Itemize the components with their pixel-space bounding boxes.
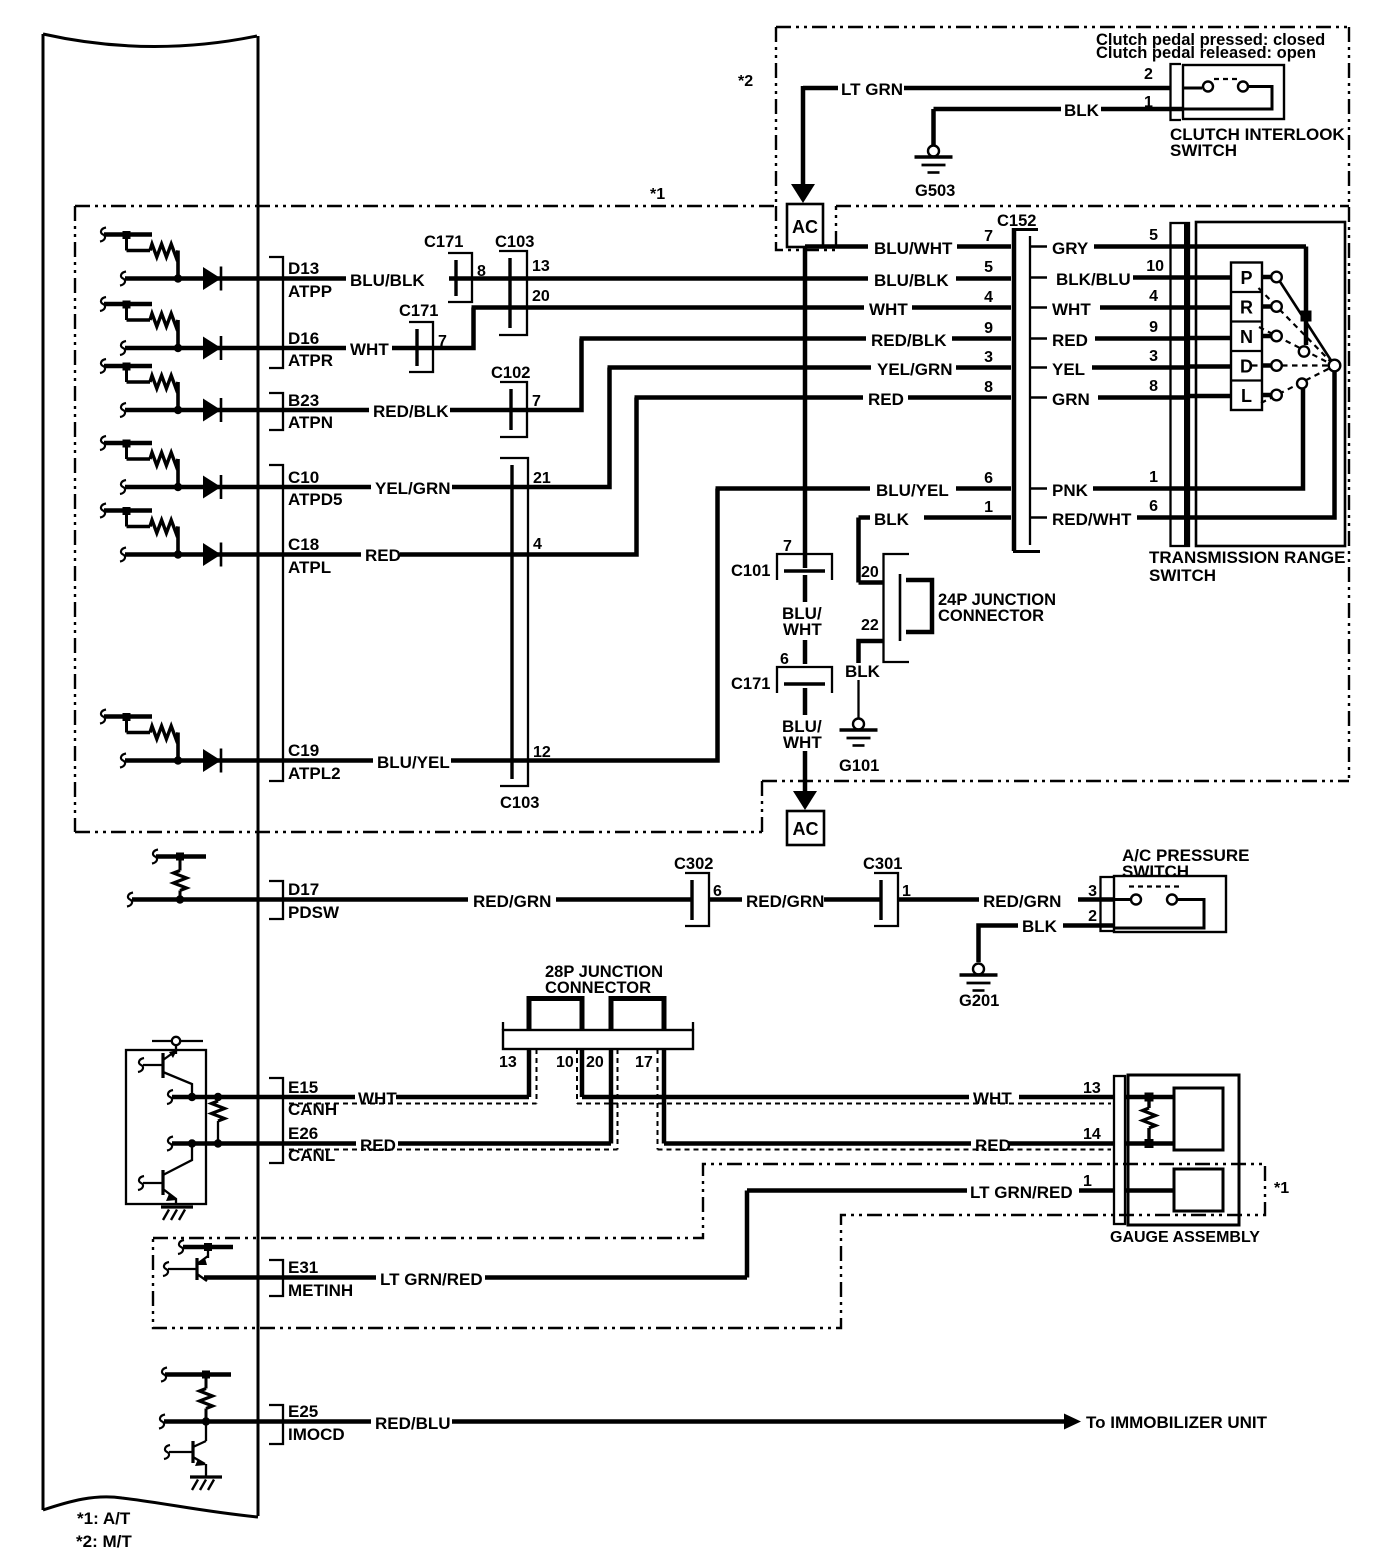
wire RED (C18 to C152 pin 8) (258, 390, 1011, 565)
svg-text:RED/WHT: RED/WHT (1052, 510, 1132, 529)
svg-text:AC: AC (792, 217, 818, 237)
svg-text:ATPL: ATPL (288, 558, 331, 577)
svg-text:*1: *1 (650, 186, 665, 203)
svg-text:C102: C102 (491, 364, 530, 382)
clutch interlock switch (1183, 65, 1284, 119)
svg-text:6: 6 (1149, 498, 1158, 515)
svg-text:14: 14 (1083, 1126, 1101, 1143)
svg-text:7: 7 (783, 538, 792, 555)
A/T-only region boundary around METINH and gauge (dash-dot) (153, 1164, 1265, 1328)
svg-text:20: 20 (532, 288, 550, 305)
pin group bracket E15/E26 (269, 1078, 283, 1163)
svg-text:22: 22 (861, 617, 879, 634)
label TRANSMISSION RANGE SWITCH (1149, 548, 1345, 585)
svg-text:WHT: WHT (350, 340, 389, 359)
svg-text:WHT: WHT (973, 1089, 1012, 1108)
pin B23 label (288, 391, 333, 432)
svg-text:2: 2 (1144, 66, 1153, 83)
svg-text:PNK: PNK (1052, 481, 1089, 500)
svg-text:C19: C19 (288, 741, 319, 760)
wire WHT inside gauge (1125, 1095, 1174, 1100)
wire GRY (C152 pin 5 to range switch) (1052, 227, 1189, 258)
pin E25 label (288, 1402, 345, 1444)
svg-text:C301: C301 (863, 855, 902, 873)
svg-text:C171: C171 (424, 233, 463, 251)
svg-text:G101: G101 (839, 757, 879, 775)
svg-text:C171: C171 (399, 302, 438, 320)
ground G503 (915, 146, 956, 201)
svg-text:CONNECTOR: CONNECTOR (938, 607, 1044, 625)
svg-text:C101: C101 (731, 562, 770, 580)
transistor Q3 (IMOCD driver) (164, 1423, 206, 1476)
svg-text:7: 7 (984, 228, 993, 245)
wire PNK feed inside range switch (1189, 389, 1303, 489)
gauge assembly body (1128, 1075, 1239, 1225)
engine control module (torn-edge outline) (43, 34, 258, 1517)
transmission range switch connector bar (1171, 223, 1190, 546)
wire RED (C152 pin 9 to range switch N) (1052, 319, 1189, 350)
ground G101 (839, 719, 879, 776)
svg-text:GRN: GRN (1052, 390, 1090, 409)
pin group bracket C10/C18/C19 (269, 465, 283, 781)
wire RED/WHT feed inside range switch (common) (1189, 371, 1335, 518)
connector C152 (997, 212, 1047, 552)
svg-text:BLK/BLU: BLK/BLU (1056, 270, 1131, 289)
gauge internal resistor (1143, 1093, 1156, 1149)
svg-text:BLK: BLK (874, 510, 910, 529)
svg-text:GRY: GRY (1052, 239, 1089, 258)
A/T section boundary (dash-dot) (75, 27, 1349, 832)
svg-text:7: 7 (532, 393, 541, 410)
gauge element (lower) (1174, 1169, 1223, 1211)
wire LT GRN arrow into AC (791, 86, 815, 203)
ground G201 (959, 964, 999, 1011)
clutch interlock switch connector bracket (1171, 64, 1182, 120)
pin D16 label (288, 329, 333, 370)
svg-text:BLU/YEL: BLU/YEL (876, 481, 949, 500)
svg-text:ATPL2: ATPL2 (288, 764, 341, 783)
pin C18 label (288, 535, 331, 577)
connector C101 pin 7 (731, 538, 832, 580)
connector C103 pins 13/20 (495, 233, 550, 335)
wire WHT (28P pin 10 to gauge assembly pin 13) (582, 1080, 1114, 1108)
terminal circle (PNK) (1297, 379, 1307, 389)
connector C171 pin 6 (731, 651, 832, 693)
pin E15 label (288, 1078, 337, 1119)
svg-text:RED: RED (868, 390, 904, 409)
wire LT GRN/RED inside gauge (1125, 1188, 1174, 1193)
svg-text:20: 20 (586, 1054, 604, 1071)
svg-text:E15: E15 (288, 1078, 318, 1097)
svg-text:AC: AC (793, 819, 819, 839)
svg-text:E25: E25 (288, 1402, 318, 1421)
svg-text:4: 4 (984, 289, 993, 306)
pin D17 label (288, 880, 340, 922)
M/T section boundary (dash-dot) (776, 27, 1349, 206)
svg-text:5: 5 (1149, 227, 1158, 244)
resistor + diode cell at pin D13 (100, 228, 258, 291)
pin group bracket D13/D16 (269, 257, 283, 368)
svg-text:Clutch pedal released: open: Clutch pedal released: open (1096, 44, 1316, 62)
svg-text:20: 20 (861, 564, 879, 581)
svg-text:1: 1 (1144, 94, 1153, 111)
svg-text:1: 1 (984, 499, 993, 516)
svg-text:4: 4 (533, 536, 542, 553)
wire RED/BLU (E25 to immobilizer unit) (258, 1414, 1081, 1434)
28P pin stubs 13/10/20/17 (499, 1049, 664, 1144)
svg-text:WHT: WHT (1052, 300, 1091, 319)
svg-text:8: 8 (1149, 378, 1158, 395)
svg-text:10: 10 (1146, 258, 1164, 275)
connector C102 pin 7 (491, 364, 541, 437)
svg-text:C10: C10 (288, 468, 319, 487)
termination resistor between CANH and CANL (188, 1093, 225, 1148)
svg-text:To IMMOBILIZER UNIT: To IMMOBILIZER UNIT (1086, 1413, 1268, 1432)
svg-text:BLU/BLK: BLU/BLK (350, 271, 425, 290)
wiper arm (P position, solid) (1277, 277, 1334, 365)
junction (GRY tap on wiper arm) (1301, 311, 1312, 322)
resistor + diode cell at pin D16 (100, 297, 258, 360)
svg-text:IMOCD: IMOCD (288, 1425, 345, 1444)
CAN driver circuit box (CANH/CANL) (126, 1037, 206, 1204)
svg-text:13: 13 (532, 258, 550, 275)
svg-text:*1: *1 (1274, 1180, 1289, 1197)
svg-text:ATPR: ATPR (288, 351, 333, 370)
svg-text:RED: RED (1052, 331, 1088, 350)
svg-text:N: N (1240, 327, 1253, 347)
connector C302 pin 6 (674, 855, 722, 926)
range switch gate plate P/R/N/D/L (1231, 263, 1262, 411)
svg-text:BLU/WHT: BLU/WHT (874, 239, 953, 258)
wire LT GRN/RED (E31 row) (204, 1270, 747, 1289)
svg-text:ATPP: ATPP (288, 282, 332, 301)
svg-text:LT GRN/RED: LT GRN/RED (970, 1183, 1073, 1202)
svg-text:3: 3 (1149, 348, 1158, 365)
wire GRY feed inside range switch (1189, 247, 1306, 346)
terminal circle (GRY) (1299, 346, 1309, 356)
wire RED (E26 to 28P pin 20) (258, 1136, 611, 1155)
svg-text:5: 5 (984, 259, 993, 276)
transmission range switch body (1196, 222, 1345, 546)
shield dashes (CANL pair) (289, 1149, 1111, 1151)
wire BLK (24P junction connector pin 22 to G101) (845, 617, 884, 718)
svg-text:RED: RED (365, 546, 401, 565)
svg-text:BLU/BLK: BLU/BLK (874, 271, 949, 290)
contact circles P/R/N/D/L (1271, 272, 1282, 401)
A/C pressure switch connector bracket (1101, 877, 1115, 931)
pin bracket D17 (269, 881, 283, 919)
svg-text:PDSW: PDSW (288, 903, 340, 922)
transistor cell at pin E31 (163, 1240, 233, 1281)
svg-text:6: 6 (780, 651, 789, 668)
wire RED/GRN (D17 to C302) (258, 892, 692, 911)
transistor Q2 (CAN driver low) (138, 1143, 192, 1204)
svg-text:BLU/YEL: BLU/YEL (377, 753, 450, 772)
svg-text:R: R (1240, 298, 1253, 318)
wire BLU/YEL (C19 to C152 pin 6) (258, 481, 1011, 772)
wire RED (28P pin 17 to gauge assembly pin 14) (664, 1126, 1114, 1155)
wire BLU/BLK (D13 to C152 pin 5) (258, 271, 1011, 290)
svg-text:L: L (1241, 386, 1252, 406)
pin E31 label (288, 1258, 353, 1300)
wire GRN (C152 pin 8 to range switch L) (1052, 378, 1189, 409)
wire YEL/GRN (C10 to C152 pin 3) (258, 360, 1011, 498)
svg-text:G201: G201 (959, 992, 999, 1010)
svg-text:YEL/GRN: YEL/GRN (877, 360, 953, 379)
wire RED/GRN (C301 to A/C pressure switch pin 3) (898, 883, 1114, 911)
pull-up resistor + transistor cell at pin E25 (159, 1368, 258, 1429)
note clutch pedal states (1096, 31, 1325, 62)
wire BLU/WHT vertical (AC to C101) (803, 247, 808, 568)
svg-text:D16: D16 (288, 329, 319, 348)
resistor + diode cell at pin B23 (100, 359, 258, 422)
svg-text:BLK: BLK (1064, 101, 1100, 120)
svg-text:G503: G503 (915, 182, 955, 200)
wire PNK (C152 pin 1 to range switch) (1052, 469, 1189, 500)
svg-text:E26: E26 (288, 1124, 318, 1143)
connector AC (from M/T clutch circuit) (787, 204, 823, 247)
C152 left pin numbers 7/5/4/9/3/8/6/1 (984, 228, 993, 516)
resistor + diode cell at pin C19 (100, 710, 258, 773)
svg-text:CONNECTOR: CONNECTOR (545, 979, 651, 997)
svg-text:SWITCH: SWITCH (1170, 141, 1237, 160)
svg-text:ATPD5: ATPD5 (288, 490, 342, 509)
svg-text:D17: D17 (288, 880, 319, 899)
svg-text:C103: C103 (500, 794, 539, 812)
svg-text:RED/GRN: RED/GRN (746, 892, 824, 911)
svg-text:*1: A/T: *1: A/T (77, 1509, 131, 1528)
svg-text:RED/GRN: RED/GRN (473, 892, 551, 911)
svg-text:LT GRN: LT GRN (841, 80, 903, 99)
svg-text:RED/BLU: RED/BLU (375, 1414, 451, 1433)
svg-text:9: 9 (984, 320, 993, 337)
svg-text:WHT: WHT (783, 733, 822, 752)
wire LT GRN/RED (E31 to gauge assembly pin 1) (747, 1173, 1114, 1278)
A/C pressure switch (1114, 876, 1226, 932)
connector C171 pin 7 (399, 302, 447, 372)
connector C301 pin 1 (863, 855, 911, 926)
pin bracket E31 (269, 1260, 283, 1296)
wire BLK (C152 pin 1 to 24P junction connector pin 20) (859, 510, 1012, 583)
svg-text:13: 13 (499, 1054, 517, 1071)
wire BLU/WHT arrow (C171 to AC) (782, 688, 822, 810)
gauge assembly connector bar (1114, 1076, 1125, 1224)
svg-text:B23: B23 (288, 391, 319, 410)
wire CANH internal (to E15) (167, 1090, 258, 1104)
connector C171 pin 8 (424, 233, 486, 302)
range switch position feeds P/R/N/D/L (1189, 278, 1231, 397)
svg-text:LT GRN/RED: LT GRN/RED (380, 1270, 483, 1289)
pivot circle (common) (1329, 360, 1341, 372)
connector AC (to A/C compressor circuit) (787, 811, 824, 845)
svg-text:METINH: METINH (288, 1281, 353, 1300)
24P junction connector (884, 554, 1056, 662)
svg-text:6: 6 (984, 470, 993, 487)
svg-text:3: 3 (984, 349, 993, 366)
svg-text:1: 1 (1149, 469, 1158, 486)
28P jumper bridge pins 20-17 (611, 999, 664, 1032)
shield dashes (CANH pair) (289, 1103, 1111, 1105)
pin bracket E25 (269, 1405, 283, 1444)
wire WHT (E15 to 28P pin 13) (258, 1089, 529, 1108)
svg-text:BLK: BLK (1022, 917, 1058, 936)
transistor Q1 (CAN driver high) (138, 1050, 192, 1097)
svg-text:SWITCH: SWITCH (1122, 862, 1189, 881)
wire BLK/BLU (C152 pin 10 to range switch P) (1056, 258, 1189, 289)
svg-text:1: 1 (1083, 1173, 1092, 1190)
svg-text:D13: D13 (288, 259, 319, 278)
svg-text:8: 8 (477, 263, 486, 280)
svg-text:YEL: YEL (1052, 360, 1085, 379)
wire RED inside gauge (1125, 1141, 1174, 1146)
wire RED/WHT (C152 pin 6 to range switch common) (1052, 498, 1189, 529)
label CLUTCH INTERLOOK SWITCH (1170, 125, 1345, 160)
pin C10 label (288, 468, 342, 509)
svg-text:TRANSMISSION RANGE: TRANSMISSION RANGE (1149, 548, 1345, 567)
svg-text:RED/BLK: RED/BLK (871, 331, 947, 350)
wire BLU/WHT (AC to C152 pin 7) (805, 239, 1011, 258)
svg-text:10: 10 (556, 1054, 574, 1071)
wire BLK (A/C pressure switch pin 2 to G201) (979, 908, 1115, 962)
svg-text:13: 13 (1083, 1080, 1101, 1097)
wire RED/GRN (C302 to C301) (709, 892, 881, 911)
connector C103 pins 21/4/12 (500, 458, 551, 812)
wire RED/BLK (B23 to C152 pin 9) (258, 331, 1011, 421)
wiper alternate positions (dashed) (1252, 288, 1331, 403)
label A/C PRESSURE SWITCH (1122, 846, 1250, 881)
svg-text:E31: E31 (288, 1258, 318, 1277)
svg-text:9: 9 (1149, 319, 1158, 336)
pin D13 label (288, 259, 332, 301)
wire LT GRN (AC to clutch interlock switch pin 2) (803, 66, 1170, 99)
wire BLK (clutch interlock switch pin 1 to G503) (934, 94, 1184, 145)
svg-text:*2: M/T: *2: M/T (76, 1532, 132, 1551)
resistor + diode cell at pin C18 (100, 504, 258, 567)
resistor + diode cell at pin C10 (100, 436, 258, 499)
svg-text:4: 4 (1149, 288, 1158, 305)
svg-text:C171: C171 (731, 675, 770, 693)
28P jumper bridge pins 13-10 (529, 999, 582, 1032)
ground (CAN driver) (161, 1207, 193, 1220)
svg-text:BLK: BLK (845, 662, 881, 681)
wire WHT (C152 pin 4 to range switch R) (1052, 288, 1189, 319)
svg-text:C152: C152 (997, 212, 1036, 230)
shield dashes at 28P pins (537, 1049, 658, 1150)
svg-text:RED/BLK: RED/BLK (373, 402, 449, 421)
svg-text:C18: C18 (288, 535, 319, 554)
svg-text:17: 17 (635, 1054, 653, 1071)
svg-text:RED: RED (975, 1136, 1011, 1155)
svg-text:WHT: WHT (358, 1089, 397, 1108)
28P junction connector (503, 963, 693, 1049)
wire BLU/WHT (C101 to C171) (782, 575, 822, 664)
wire WHT (D16 to C152 pin 4) (258, 300, 1011, 359)
contact stubs (1262, 277, 1271, 395)
svg-text:WHT: WHT (783, 620, 822, 639)
svg-text:C302: C302 (674, 855, 713, 873)
svg-text:YEL/GRN: YEL/GRN (375, 479, 451, 498)
wire CANL internal (to E26) (167, 1137, 258, 1151)
svg-text:RED/GRN: RED/GRN (983, 892, 1061, 911)
gauge element (upper) (1174, 1088, 1223, 1150)
svg-text:7: 7 (438, 333, 447, 350)
pin C19 label (288, 741, 341, 783)
svg-text:D: D (1240, 357, 1253, 377)
svg-text:P: P (1240, 268, 1252, 288)
svg-text:2: 2 (1088, 908, 1097, 925)
ground (IMOCD driver) (190, 1477, 222, 1490)
svg-text:WHT: WHT (869, 300, 908, 319)
svg-text:C103: C103 (495, 233, 534, 251)
svg-text:21: 21 (533, 470, 551, 487)
wire YEL (C152 pin 3 to range switch D) (1052, 348, 1189, 379)
pull-up resistor cell at pin D17 (127, 850, 258, 907)
svg-text:SWITCH: SWITCH (1149, 566, 1216, 585)
svg-text:GAUGE ASSEMBLY: GAUGE ASSEMBLY (1110, 1229, 1260, 1246)
svg-text:ATPN: ATPN (288, 413, 333, 432)
pin bracket B23 (269, 393, 283, 430)
pin E26 label (288, 1124, 335, 1165)
svg-text:8: 8 (984, 379, 993, 396)
svg-text:RED: RED (360, 1136, 396, 1155)
svg-text:*2: *2 (738, 73, 753, 90)
svg-text:3: 3 (1088, 883, 1097, 900)
